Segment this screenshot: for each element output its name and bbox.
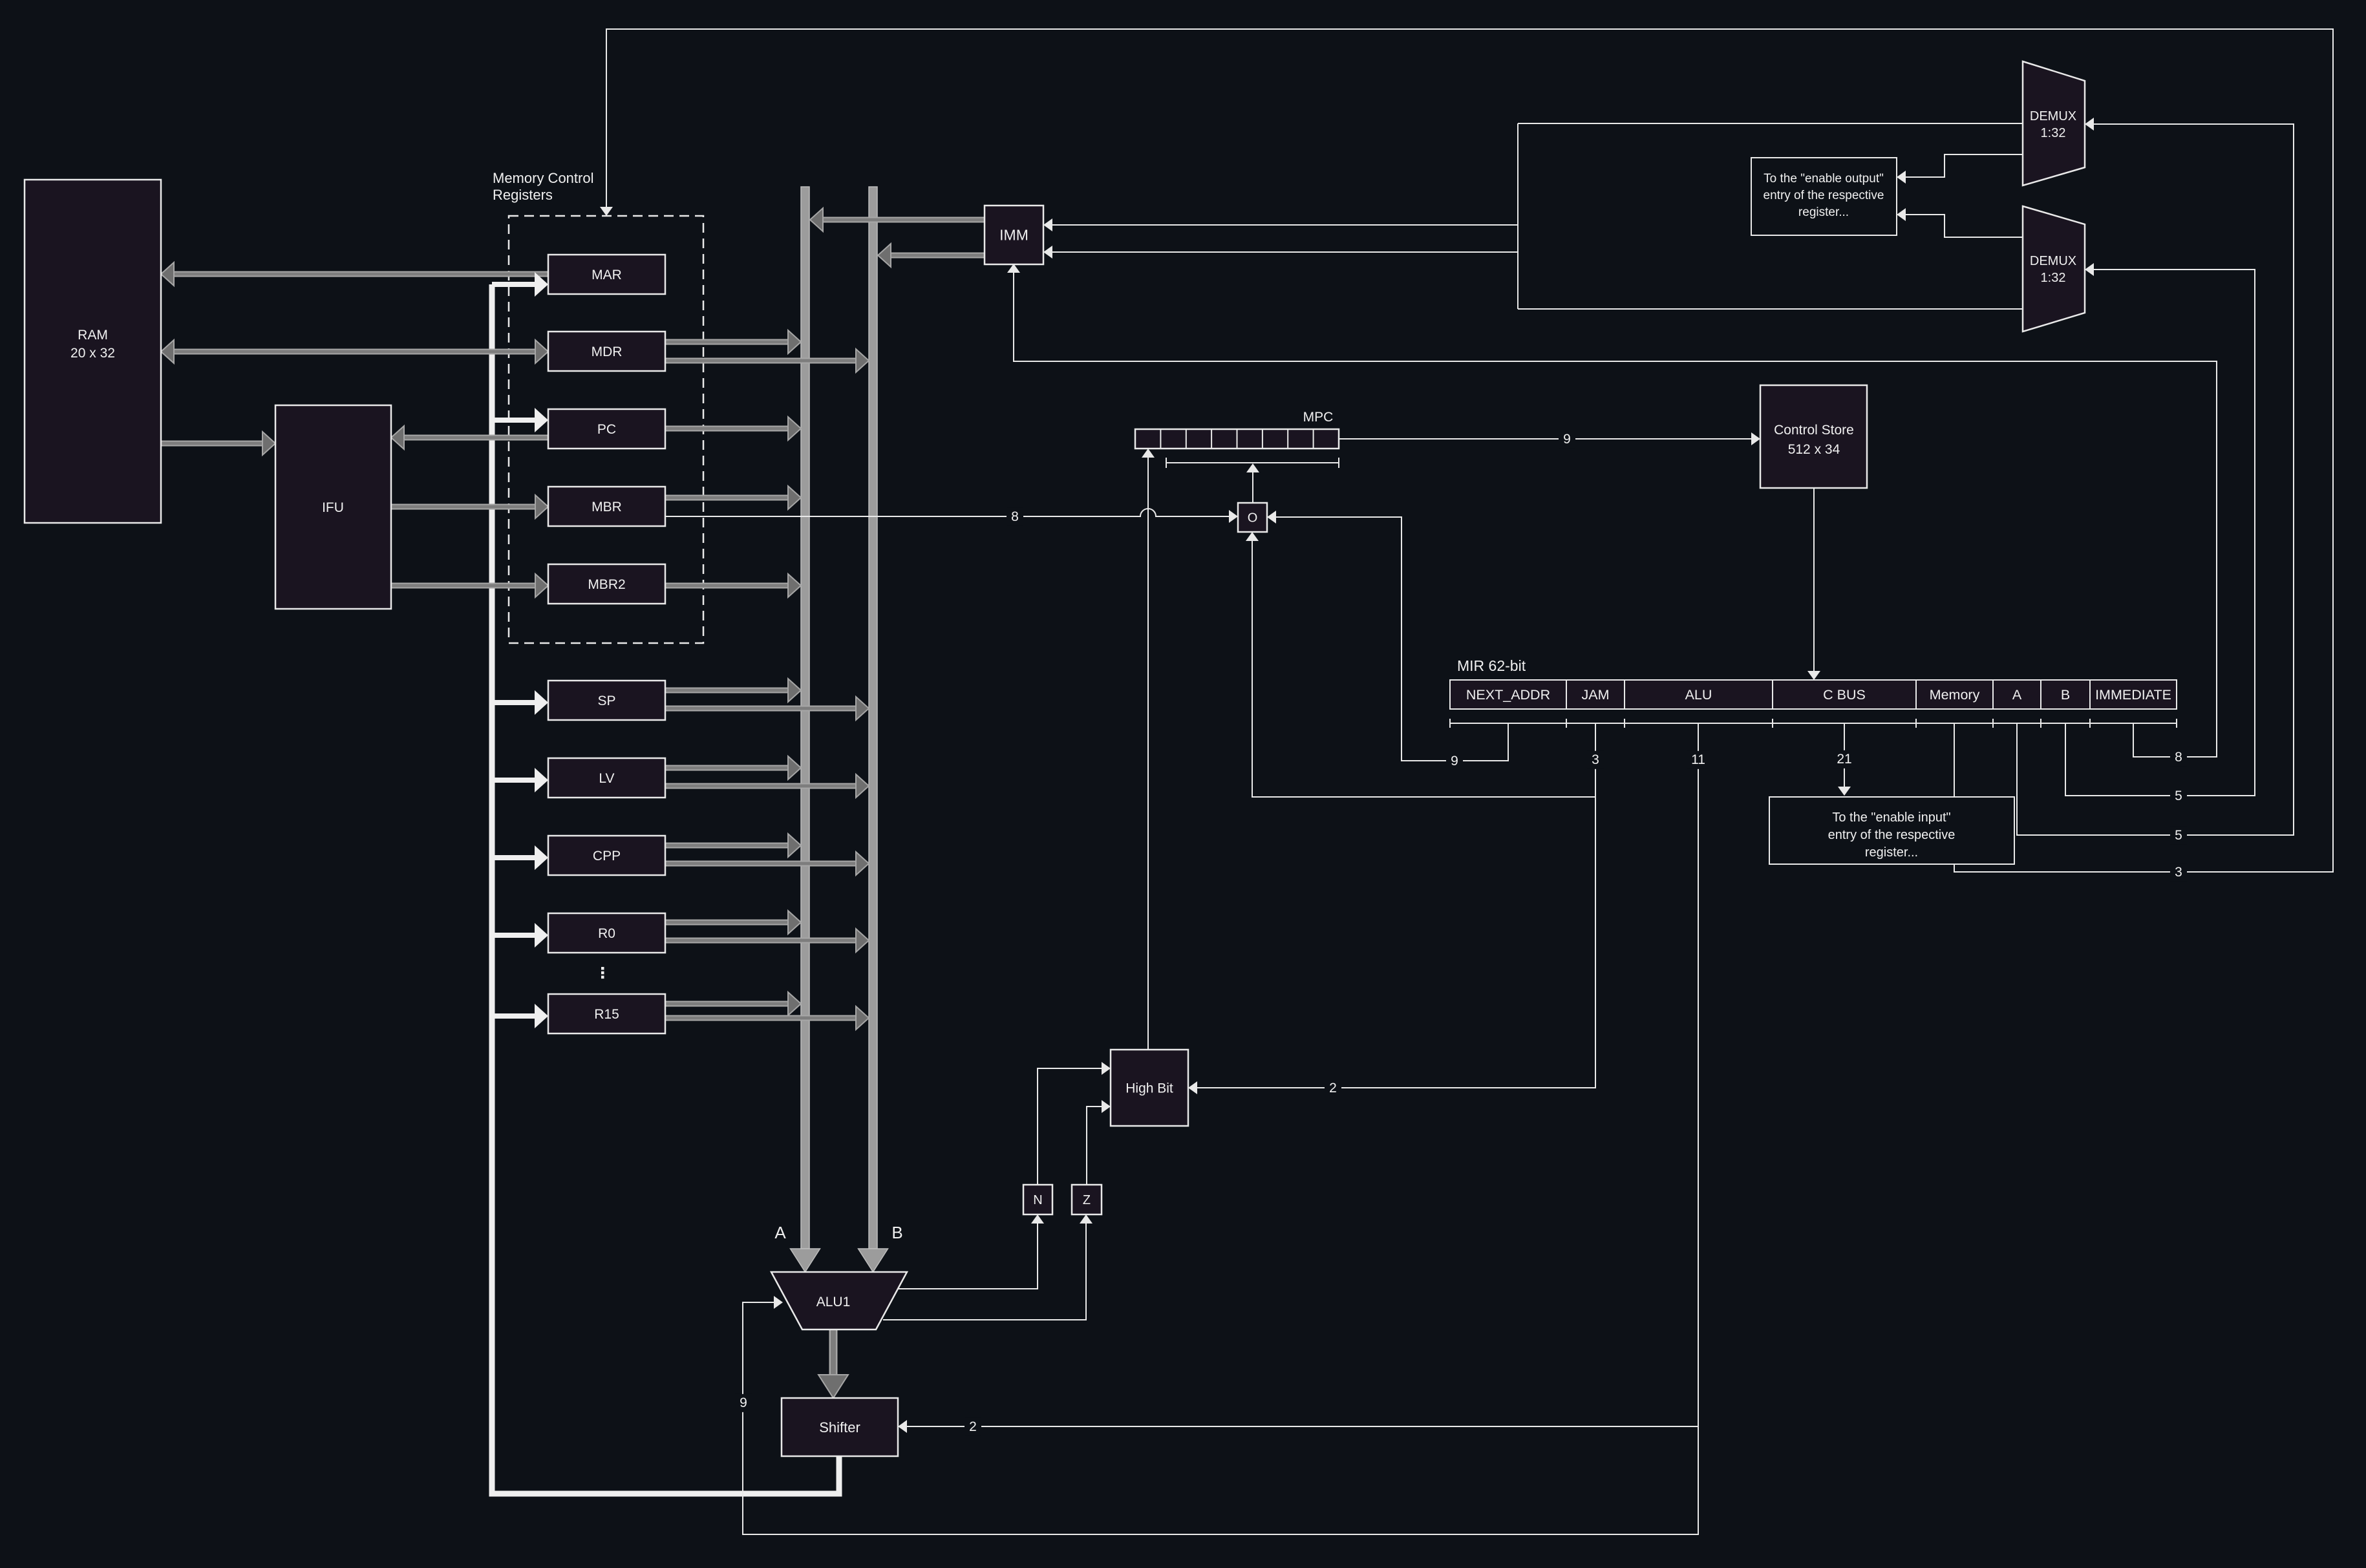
ALU1 trapezoid [771,1272,907,1330]
label 5 bits B field [2170,787,2187,805]
svg-text:LV: LV [599,771,614,786]
svg-text:SP: SP [597,694,615,708]
svg-text:IFU: IFU [322,500,344,515]
RAM label line 1 [78,328,108,343]
enable-input note text 3 [1865,845,1918,860]
svg-text:RAM: RAM [78,328,108,343]
svg-text:C BUS: C BUS [1823,687,1866,703]
wire: C bus into MAR [492,272,548,297]
Memory Control Registers label line 2 [493,187,553,203]
MIR field JAM [1566,680,1625,709]
register LV [548,758,665,798]
wire: RAM to IFU [161,432,275,455]
svg-text:2: 2 [969,1419,977,1434]
svg-text:R15: R15 [594,1007,619,1022]
wire: LV to bus B [665,774,869,798]
wire: Control Store to MIR [1807,488,1820,680]
Control Store label line 2 [1788,442,1840,457]
wire: IFU to MBR2 [391,574,548,597]
svg-text:11: 11 [1691,752,1705,767]
MIR field IMMEDIATE [2090,680,2177,709]
svg-text:9: 9 [1563,432,1571,447]
register R0 [548,913,665,953]
wire: JAM branch to O [1246,532,1595,797]
wire: ALU1 N output [899,1214,1044,1289]
register MBR2 [548,564,665,604]
Shifter label [819,1419,860,1436]
Control Store label line 1 [1774,423,1854,438]
IMM block [985,206,1043,264]
label 8 bits MBR to O [1007,508,1023,526]
wire: IFU to MBR [391,495,548,518]
wire: DEMUX 1 left line [1518,123,2023,124]
wire: ALU1 output to Shifter [818,1330,848,1398]
wire: C bus from Shifter output to register inputs [492,284,839,1494]
wire: O output to MPC bracket [1246,463,1259,503]
register CPP [548,836,665,875]
svg-text:Memory Control: Memory Control [493,170,593,186]
svg-text:MBR2: MBR2 [588,577,625,592]
DEMUX 2 trapezoid [2023,206,2085,332]
wire: MIR A field to DEMUX (5 bits) [2017,118,2294,835]
svg-text:IMMEDIATE: IMMEDIATE [2095,687,2171,703]
svg-text:8: 8 [2175,750,2182,765]
RAM label line 2 [70,346,115,361]
svg-text:CPP: CPP [593,849,621,863]
svg-text:1:32: 1:32 [2041,271,2066,285]
svg-text:Z: Z [1083,1193,1091,1207]
MIR field B [2041,680,2090,709]
svg-text:Shifter: Shifter [819,1419,860,1436]
MIR width bracket [1450,719,2177,728]
wire: ALU1 Z output [883,1214,1092,1320]
label 9 bits NEXT_ADDR [1446,752,1463,770]
wire: MAR to RAM address [161,262,548,286]
svg-text:ALU: ALU [1685,687,1712,703]
svg-text:9: 9 [1451,754,1458,768]
register PC [548,409,665,449]
svg-text:3: 3 [2175,865,2182,880]
MPC width bracket [1166,458,1339,468]
wire: Z to High Bit [1087,1100,1111,1185]
MPC label [1303,410,1334,425]
svg-text:N: N [1033,1193,1042,1207]
bus B vertical [869,187,877,1249]
High Bit block [1111,1050,1188,1126]
label 8 bits IMMEDIATE [2170,748,2187,767]
enable-input note text 1 [1832,810,1950,825]
svg-text:5: 5 [2175,828,2182,843]
svg-text:MIR 62-bit: MIR 62-bit [1457,657,1526,674]
wire: MIR JAM to High Bit (2 bits) [1188,723,1595,1094]
enable-output note text 3 [1798,206,1849,219]
svg-text:ALU1: ALU1 [816,1295,851,1309]
wire: IMM to bus B [878,244,985,267]
memory control registers dashed group box [509,216,703,643]
wire: R0 to bus B [665,929,869,952]
wire: MDR to bus A [665,330,801,354]
svg-text:NEXT_ADDR: NEXT_ADDR [1466,687,1550,703]
register R15 [548,994,665,1033]
label 21 bits C BUS [1833,750,1855,768]
svg-text:A: A [2012,687,2022,703]
svg-text:512 x 34: 512 x 34 [1788,442,1840,457]
wire: MBR to bus A [665,486,801,509]
svg-text:Memory: Memory [1930,687,1980,703]
Shifter block [782,1398,898,1456]
bus B arrowhead into ALU [858,1249,888,1272]
wire: N to High Bit [1038,1062,1111,1185]
svg-text:DEMUX: DEMUX [2030,254,2076,268]
DEMUX 1 label line 1 [2030,109,2076,123]
wire: MDR to bus B [665,349,869,372]
MPC register (8 cells) [1135,429,1339,449]
wire: MIR C BUS field to enable-input note (21 bits) [1838,723,1851,796]
MIR field Memory [1916,680,1993,709]
DEMUX 2 label line 2 [2041,271,2066,285]
wire: CPP to bus A [665,834,801,857]
svg-text:register...: register... [1865,845,1918,860]
wire: MPC to Control Store (9 bits) [1339,432,1760,445]
svg-text:2: 2 [1329,1081,1337,1096]
register MBR [548,487,665,526]
ellipsis between R0 and R15 [601,967,604,979]
wire: MIR IMMEDIATE field to IMM (8 bits) [1007,264,2217,757]
RAM memory block [25,180,161,523]
wire: R15 to bus A [665,992,801,1015]
wire: C bus into SP [492,690,548,715]
wire: CPP to bus B [665,852,869,875]
svg-text:entry of the respective: entry of the respective [1764,189,1884,202]
svg-text:PC: PC [597,422,616,437]
wire: SP to bus A [665,679,801,702]
enable-output note box [1751,158,1897,235]
svg-text:B: B [2061,687,2070,703]
wire: RAM data to/from MDR [161,340,548,363]
wire: High Bit output to MPC [1142,449,1155,1050]
N flag box [1023,1185,1052,1214]
DEMUX 2 label line 1 [2030,254,2076,268]
wire: C bus into R0 [492,923,548,948]
wire: MIR Memory field to memory control registers (3 bits) [600,29,2333,872]
wire: MIR B field to DEMUX (5 bits) [2065,263,2255,796]
svg-text:20 x 32: 20 x 32 [70,346,115,361]
wire: R0 to bus A [665,911,801,934]
IFU block [275,405,391,609]
svg-text:1:32: 1:32 [2041,126,2066,140]
wire: LV to bus A [665,756,801,779]
wire: MIR ALU field to ALU1 (9 bits) [743,723,1698,1534]
wire: DEMUX 2 left line [1518,308,2023,310]
wire: MBR to O (8 bits) with hop [665,509,1238,523]
svg-text:9: 9 [740,1395,747,1410]
wire: PC to bus A [665,417,801,440]
wire: IMM to bus A [810,208,985,231]
svg-text:register...: register... [1798,206,1849,219]
wire: DEMUX outputs junction vertical to IMM [1517,123,1519,309]
register SP [548,681,665,720]
svg-text:21: 21 [1837,752,1851,767]
svg-text:A: A [774,1223,786,1242]
DEMUX 1 label line 2 [2041,126,2066,140]
MIR field C BUS [1773,680,1916,709]
bus A vertical [801,187,809,1249]
wire: SP to bus B [665,697,869,720]
svg-text:DEMUX: DEMUX [2030,109,2076,123]
svg-text:3: 3 [1592,752,1599,767]
wire: MBR2 to bus A [665,574,801,597]
bus B label [891,1223,902,1242]
svg-text:R0: R0 [598,926,615,941]
O merge box [1238,503,1267,532]
wire: DEMUX 1 output to enable-output note [1897,154,2023,184]
svg-text:8: 8 [1011,509,1019,524]
svg-text:MBR: MBR [591,500,622,514]
wire: R15 to bus B [665,1006,869,1030]
bus A arrowhead into ALU [791,1249,820,1272]
enable-output note text 2 [1764,189,1884,202]
svg-text:5: 5 [2175,789,2182,803]
label 3 bits JAM [1587,751,1604,769]
svg-text:MAR: MAR [591,268,622,282]
wire: DEMUX 2 output to enable-output note [1897,208,2023,237]
enable-input note box [1769,797,2014,864]
label 2 bits to Shifter [965,1418,981,1436]
MIR field NEXT_ADDR [1450,680,1566,709]
wire: ALU field branch to Shifter (2 bits) [898,1420,1698,1433]
svg-text:entry of the respective: entry of the respective [1828,828,1956,842]
wire: upper input into IMM [1043,218,1518,231]
svg-text:To the "enable output": To the "enable output" [1764,172,1884,185]
label 11 bits ALU [1687,751,1709,769]
wire: lower input into IMM [1043,246,1518,259]
Z flag box [1072,1185,1102,1214]
svg-text:JAM: JAM [1582,687,1610,703]
svg-text:MDR: MDR [591,344,623,359]
label 5 bits A field [2170,827,2187,845]
MIR field ALU [1625,680,1773,709]
Memory Control Registers label line 1 [493,170,593,186]
label 9 bits to ALU1 [735,1394,752,1412]
bus A label [774,1223,786,1242]
DEMUX 1 trapezoid [2023,61,2085,185]
svg-text:High Bit: High Bit [1125,1081,1173,1096]
MIR field A [1993,680,2041,709]
IFU label [322,500,344,515]
svg-text:Registers: Registers [493,187,553,203]
svg-text:IMM: IMM [999,227,1028,244]
label 3 bits Memory field [2170,863,2187,882]
wire: PC to IFU [391,426,548,449]
svg-text:MPC: MPC [1303,410,1334,425]
wire: C bus into CPP [492,845,548,870]
label 2 bits JAM to High Bit [1325,1079,1341,1097]
svg-text:O: O [1248,511,1258,525]
label 9 bits MPC to Control Store [1559,430,1575,449]
MIR 62-bit label [1457,657,1526,674]
svg-text:To the "enable input": To the "enable input" [1832,810,1950,825]
register MDR [548,332,665,371]
wire: C bus into LV [492,768,548,792]
wire: MIR NEXT_ADDR to O (9 bits) [1267,511,1508,761]
enable-input note text 2 [1828,828,1956,842]
wire: C bus into PC [492,408,548,432]
wire: C bus into R15 [492,1004,548,1028]
ALU1 label [816,1295,851,1309]
svg-text:B: B [891,1223,902,1242]
enable-output note text 1 [1764,172,1884,185]
Control Store block [1760,385,1867,488]
svg-text:Control Store: Control Store [1774,423,1854,438]
register MAR [548,255,665,294]
